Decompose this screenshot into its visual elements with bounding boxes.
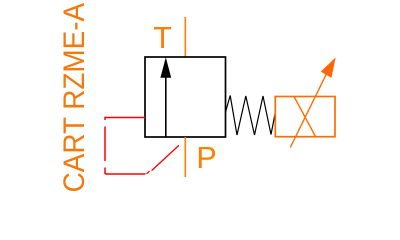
flow arrow head — [160, 57, 171, 77]
svg-text:T: T — [153, 21, 172, 55]
proportional solenoid box — [275, 97, 335, 137]
solenoid diagonal — [294, 97, 316, 137]
pilot line dashed red: bottom horizontal — [105, 173, 146, 175]
adjustment arrow shaft — [290, 75, 326, 148]
pilot line dashed red: left vertical dashes — [104, 117, 106, 174]
port T line — [184, 17, 186, 57]
flow arrow stem — [165, 75, 167, 137]
spring — [226, 96, 276, 136]
port P line — [184, 137, 186, 177]
pilot line dashed red: diagonal dashes to port P — [147, 145, 179, 173]
valve body envelope — [145, 57, 226, 137]
svg-text:P: P — [196, 141, 216, 175]
adjustment arrow head — [321, 57, 336, 78]
pilot line dashed red: top horizontal — [105, 117, 145, 119]
svg-text:CART RZME-A: CART RZME-A — [58, 2, 91, 192]
